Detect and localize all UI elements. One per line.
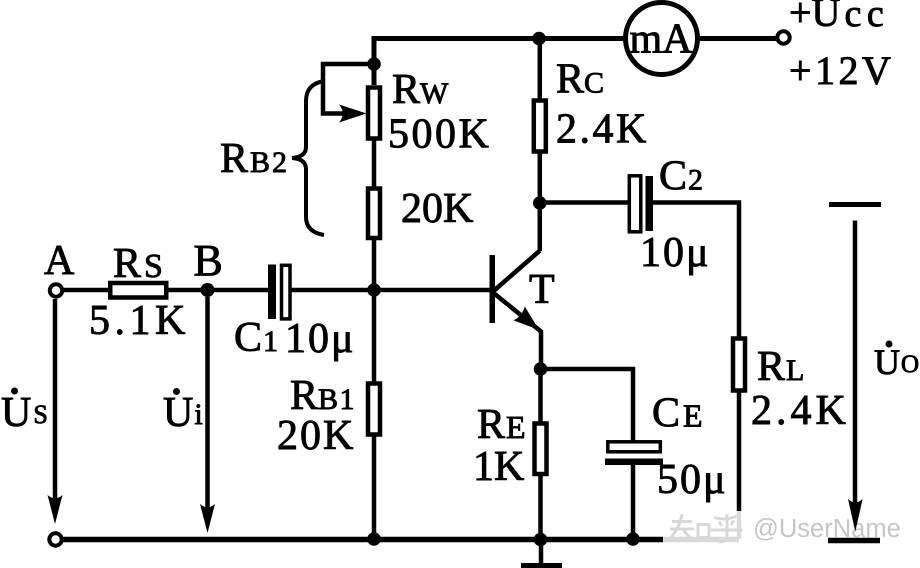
svg-text:B: B bbox=[194, 236, 223, 285]
svg-text:RE: RE bbox=[477, 402, 526, 448]
svg-text:10μ: 10μ bbox=[640, 230, 711, 276]
svg-text:mA: mA bbox=[630, 17, 694, 63]
svg-text:20K: 20K bbox=[401, 186, 473, 232]
svg-text:+12V: +12V bbox=[789, 48, 894, 93]
svg-text:T: T bbox=[529, 267, 555, 313]
svg-text:CE: CE bbox=[652, 391, 703, 437]
svg-text:2.4K: 2.4K bbox=[556, 107, 649, 153]
svg-text:+Ucc: +Ucc bbox=[789, 0, 889, 35]
svg-text:2.4K: 2.4K bbox=[751, 388, 850, 434]
svg-text:RS: RS bbox=[113, 241, 163, 287]
svg-text:1K: 1K bbox=[473, 444, 524, 490]
svg-text:A: A bbox=[44, 238, 75, 284]
svg-text:20K: 20K bbox=[277, 413, 355, 459]
svg-text:10μ: 10μ bbox=[285, 316, 356, 362]
svg-text:50μ: 50μ bbox=[657, 457, 728, 503]
svg-text:500K: 500K bbox=[388, 112, 491, 158]
svg-text:5.1K: 5.1K bbox=[89, 298, 190, 344]
